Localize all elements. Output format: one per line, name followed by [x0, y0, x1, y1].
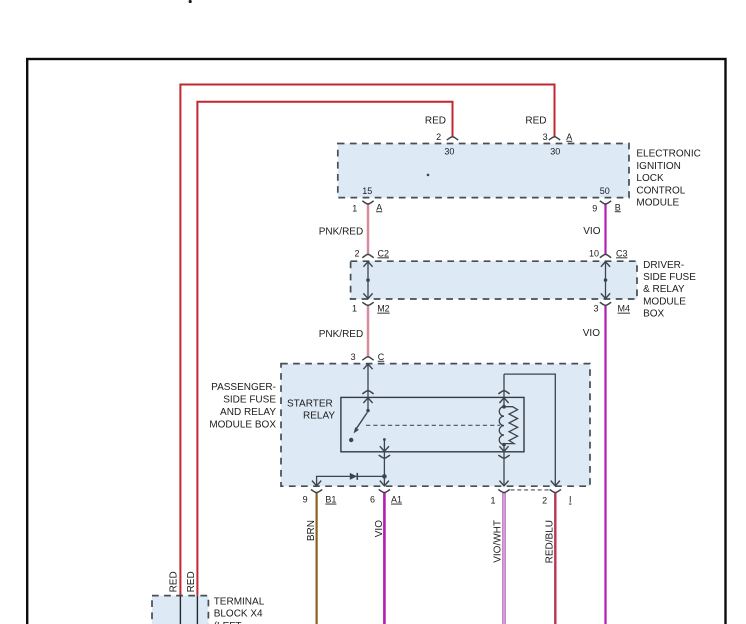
svg-text:I: I	[569, 495, 572, 505]
svg-text:A: A	[376, 202, 382, 212]
svg-text:50: 50	[600, 186, 610, 196]
svg-text:30: 30	[550, 147, 560, 157]
svg-text:MODULE BOX: MODULE BOX	[209, 419, 276, 430]
svg-text:SIDE FUSE: SIDE FUSE	[643, 272, 696, 283]
svg-text:C: C	[378, 352, 385, 362]
svg-text:VIO/WHT: VIO/WHT	[492, 520, 503, 563]
svg-text:RED: RED	[425, 115, 446, 126]
svg-text:15: 15	[362, 186, 372, 196]
svg-text:RELAY: RELAY	[303, 410, 335, 421]
svg-text:B1: B1	[325, 495, 336, 505]
svg-text:PNK/RED: PNK/RED	[319, 329, 363, 340]
svg-text:VIO: VIO	[583, 226, 600, 237]
svg-text:SIDE FUSE: SIDE FUSE	[223, 395, 276, 406]
svg-text:AND RELAY: AND RELAY	[220, 407, 276, 418]
svg-text:CONTROL: CONTROL	[636, 185, 685, 196]
svg-text:VIO: VIO	[583, 328, 600, 339]
svg-text:VIO: VIO	[374, 520, 385, 537]
svg-text:RED: RED	[525, 115, 546, 126]
svg-text:2: 2	[436, 132, 441, 142]
svg-text:& RELAY: & RELAY	[643, 284, 685, 295]
svg-text:C2: C2	[378, 248, 390, 258]
svg-text:RED: RED	[186, 571, 197, 592]
svg-text:6: 6	[370, 495, 375, 505]
svg-text:3: 3	[593, 304, 598, 314]
svg-text:BOX: BOX	[643, 309, 664, 320]
svg-text:2: 2	[354, 248, 359, 258]
svg-text:3: 3	[543, 132, 548, 142]
svg-text:BRN: BRN	[306, 520, 317, 541]
svg-text:9: 9	[303, 495, 308, 505]
svg-text:PASSENGER-: PASSENGER-	[211, 382, 276, 393]
svg-text:PNK/RED: PNK/RED	[319, 226, 363, 237]
svg-text:STARTER: STARTER	[287, 398, 333, 409]
svg-text:1: 1	[490, 495, 495, 505]
svg-text:MODULE: MODULE	[636, 198, 679, 209]
svg-text:MODULE: MODULE	[643, 296, 686, 307]
svg-text:3: 3	[351, 352, 356, 362]
svg-text:C3: C3	[616, 248, 628, 258]
svg-text:B: B	[615, 202, 621, 212]
svg-text:M4: M4	[618, 304, 631, 314]
svg-text:ELECTRONIC: ELECTRONIC	[636, 149, 700, 160]
svg-text:1: 1	[352, 203, 357, 213]
svg-text:2: 2	[542, 495, 547, 505]
svg-text:A: A	[566, 132, 572, 142]
svg-text:1: 1	[352, 304, 357, 314]
svg-text:30: 30	[444, 147, 454, 157]
svg-text:9: 9	[592, 203, 597, 213]
svg-text:TERMINAL: TERMINAL	[214, 596, 265, 607]
svg-text:BLOCK X4: BLOCK X4	[214, 609, 263, 620]
svg-text:M2: M2	[377, 304, 390, 314]
svg-text:RED: RED	[168, 571, 179, 592]
svg-text:10: 10	[589, 248, 599, 258]
svg-text:LOCK: LOCK	[636, 173, 664, 184]
svg-text:IGNITION: IGNITION	[636, 161, 680, 172]
svg-text:RED/BLU: RED/BLU	[544, 520, 555, 563]
svg-text:A1: A1	[391, 495, 402, 505]
svg-text:DRIVER-: DRIVER-	[643, 260, 684, 271]
